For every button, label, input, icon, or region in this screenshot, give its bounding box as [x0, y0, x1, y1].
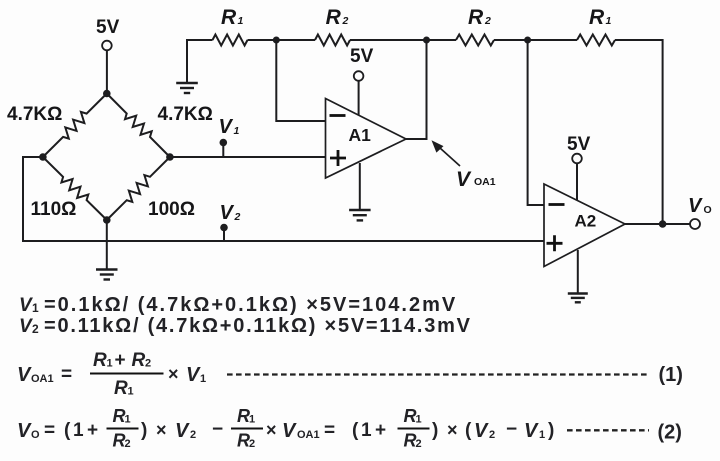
svg-text:V: V: [17, 420, 32, 442]
svg-text:2: 2: [234, 211, 241, 223]
svg-text:(: (: [352, 420, 359, 441]
resistor 4.7K&#937; (bridge top-left arm): [7, 94, 107, 158]
svg-text:1: 1: [125, 414, 131, 426]
svg-text:V: V: [456, 168, 472, 191]
svg-text:2: 2: [489, 429, 495, 441]
svg-text:V: V: [220, 202, 235, 224]
wire: node1 down and right to A1 inverting input: [276, 40, 325, 121]
node: bridge right: [166, 153, 174, 161]
svg-text:=: =: [61, 364, 72, 385]
resistor R2 (top, second): [315, 6, 350, 46]
svg-text:A1: A1: [349, 125, 372, 145]
svg-text:V: V: [17, 364, 32, 386]
equation (2): Vo = (1+R1/R2) x V2 - ...: [17, 406, 682, 451]
node: bridge bottom: [103, 216, 111, 224]
svg-text:(1): (1): [659, 364, 683, 386]
svg-text:×: ×: [156, 420, 167, 440]
svg-text:): ): [432, 420, 438, 441]
svg-text:A2: A2: [575, 212, 597, 231]
svg-text:2: 2: [125, 438, 131, 450]
wire: A1 output up to node2: [406, 40, 427, 139]
wire: A2 output to Vo terminal: [625, 223, 691, 225]
ground (top-left, below R1 left lead): [176, 40, 198, 93]
arrow pointing to A1 output (VOA1): [432, 140, 461, 166]
svg-text:4.7KΩ: 4.7KΩ: [158, 104, 213, 125]
svg-text:OA1: OA1: [297, 429, 320, 441]
svg-text:2: 2: [342, 15, 349, 27]
svg-text:110Ω: 110Ω: [31, 199, 77, 220]
svg-text:+: +: [375, 420, 386, 441]
ground (bridge bottom): [96, 220, 118, 280]
svg-text:−: −: [506, 419, 517, 440]
svg-text:−: −: [212, 419, 223, 440]
svg-text:O: O: [704, 204, 712, 216]
svg-text:5V: 5V: [567, 134, 591, 155]
node: junction above A2 inverting input: [524, 37, 531, 44]
svg-text:V: V: [186, 364, 201, 386]
svg-text:×: ×: [266, 420, 277, 440]
svg-text:R: R: [132, 350, 146, 371]
resistor R1 (top-left): [213, 6, 248, 46]
equation line: V1 = 0.1k...: [19, 294, 457, 316]
equation line: V2 = 0.11k...: [19, 315, 472, 337]
svg-text:V: V: [19, 316, 33, 337]
ground (A2): [568, 250, 588, 302]
svg-text:4.7KΩ: 4.7KΩ: [7, 104, 62, 125]
label Vo: [688, 195, 712, 217]
svg-text:=0.1kΩ/ (4.7kΩ+0.1kΩ) ×5V=104.: =0.1kΩ/ (4.7kΩ+0.1kΩ) ×5V=104.2mV: [44, 294, 457, 316]
svg-text:=: =: [44, 420, 55, 441]
svg-text:R: R: [589, 6, 605, 29]
svg-text:R: R: [114, 378, 128, 399]
resistor 100&#937; (bridge bottom-right arm): [107, 157, 195, 220]
wire: bridge left node around to V2 rail (to A2 non-inverting input): [23, 157, 544, 241]
wire: node3 down and right to A2 inverting input: [528, 40, 544, 205]
svg-text:R: R: [93, 350, 107, 371]
svg-text:1: 1: [606, 15, 612, 27]
svg-text:1: 1: [238, 15, 244, 27]
5V supply terminal (A1): [350, 46, 374, 116]
svg-text:2: 2: [484, 15, 491, 27]
svg-text:=0.11kΩ/ (4.7kΩ+0.11kΩ) ×5V=11: =0.11kΩ/ (4.7kΩ+0.11kΩ) ×5V=114.3mV: [44, 315, 472, 337]
wire: R2b to node3 to R1b: [494, 39, 577, 41]
label V1: [219, 116, 240, 138]
wire: R1b right, down to A2 output node: [615, 40, 663, 224]
label VOA1: [456, 168, 496, 191]
svg-text:1: 1: [249, 414, 255, 426]
svg-text:×: ×: [447, 420, 458, 440]
svg-text:V: V: [282, 420, 297, 442]
svg-text:×: ×: [168, 364, 179, 384]
svg-text:OA1: OA1: [31, 373, 54, 385]
op-amp A1: [326, 99, 407, 179]
svg-text:1: 1: [73, 420, 84, 441]
svg-text:2: 2: [32, 322, 39, 336]
svg-text:1: 1: [234, 125, 240, 137]
svg-text:R: R: [468, 6, 484, 29]
svg-text:1: 1: [32, 301, 39, 315]
svg-text:): ): [548, 420, 554, 441]
equation (1): VOA1 = (R1+R2)/R1 x V1: [17, 350, 683, 399]
node: bridge top: [103, 90, 111, 98]
resistor R1 (top-right feedback of A2): [577, 6, 615, 46]
op-amp A2: [544, 184, 625, 267]
svg-text:V: V: [524, 420, 539, 442]
svg-text:+: +: [115, 350, 126, 371]
terminal Vo (open circle): [690, 219, 700, 229]
node: junction of R1/R2 and A1 inverting input: [273, 37, 280, 44]
node: A2 output / feedback junction: [659, 220, 667, 228]
5V supply terminal (bridge top): [96, 17, 120, 94]
wire: top rail left corner from ground up to R1: [187, 40, 213, 83]
resistor 4.7K&#937; (bridge top-right arm): [107, 94, 213, 158]
svg-text:V: V: [688, 195, 703, 217]
svg-text:V: V: [474, 420, 489, 442]
svg-text:+: +: [87, 420, 98, 441]
svg-text:V: V: [175, 420, 190, 442]
svg-text:5V: 5V: [96, 17, 120, 38]
svg-text:2: 2: [416, 438, 422, 450]
node: junction above A1 output: [423, 37, 430, 44]
svg-text:1: 1: [539, 429, 545, 441]
svg-text:2: 2: [190, 429, 196, 441]
svg-text:R: R: [326, 6, 342, 29]
node V1 (test point on stub): [220, 139, 228, 157]
svg-text:2: 2: [145, 358, 151, 370]
svg-text:(2): (2): [658, 422, 682, 444]
svg-text:OA1: OA1: [474, 176, 496, 188]
svg-text:1: 1: [416, 414, 422, 426]
svg-text:(: (: [64, 420, 71, 441]
node: bridge left: [39, 153, 47, 161]
resistor 110&#937; (bridge bottom-left arm): [31, 157, 107, 220]
ground (A1): [349, 163, 371, 220]
wire: R1 to node1 to R2: [248, 39, 316, 41]
5V supply terminal (A2): [567, 134, 591, 200]
svg-text:1: 1: [361, 420, 372, 441]
svg-text:): ): [141, 420, 147, 441]
svg-text:1: 1: [107, 358, 113, 370]
svg-text:100Ω: 100Ω: [148, 199, 195, 220]
svg-text:1: 1: [128, 386, 134, 398]
svg-text:=: =: [324, 420, 335, 441]
svg-text:O: O: [31, 429, 40, 441]
svg-text:V: V: [219, 116, 234, 138]
node V2 (test point on stub): [220, 224, 228, 241]
wire: V1 rail, bridge right node to A1 non-inverting input: [170, 156, 326, 158]
svg-text:5V: 5V: [350, 46, 374, 67]
svg-text:2: 2: [249, 438, 255, 450]
resistor R2 (top-right feedback of A2): [456, 6, 494, 46]
wire: R2 to node2 to R2b: [350, 39, 456, 41]
svg-text:(: (: [465, 420, 472, 441]
svg-text:R: R: [221, 6, 237, 29]
label V2: [220, 202, 241, 224]
svg-text:V: V: [19, 295, 33, 316]
svg-text:1: 1: [200, 373, 206, 385]
